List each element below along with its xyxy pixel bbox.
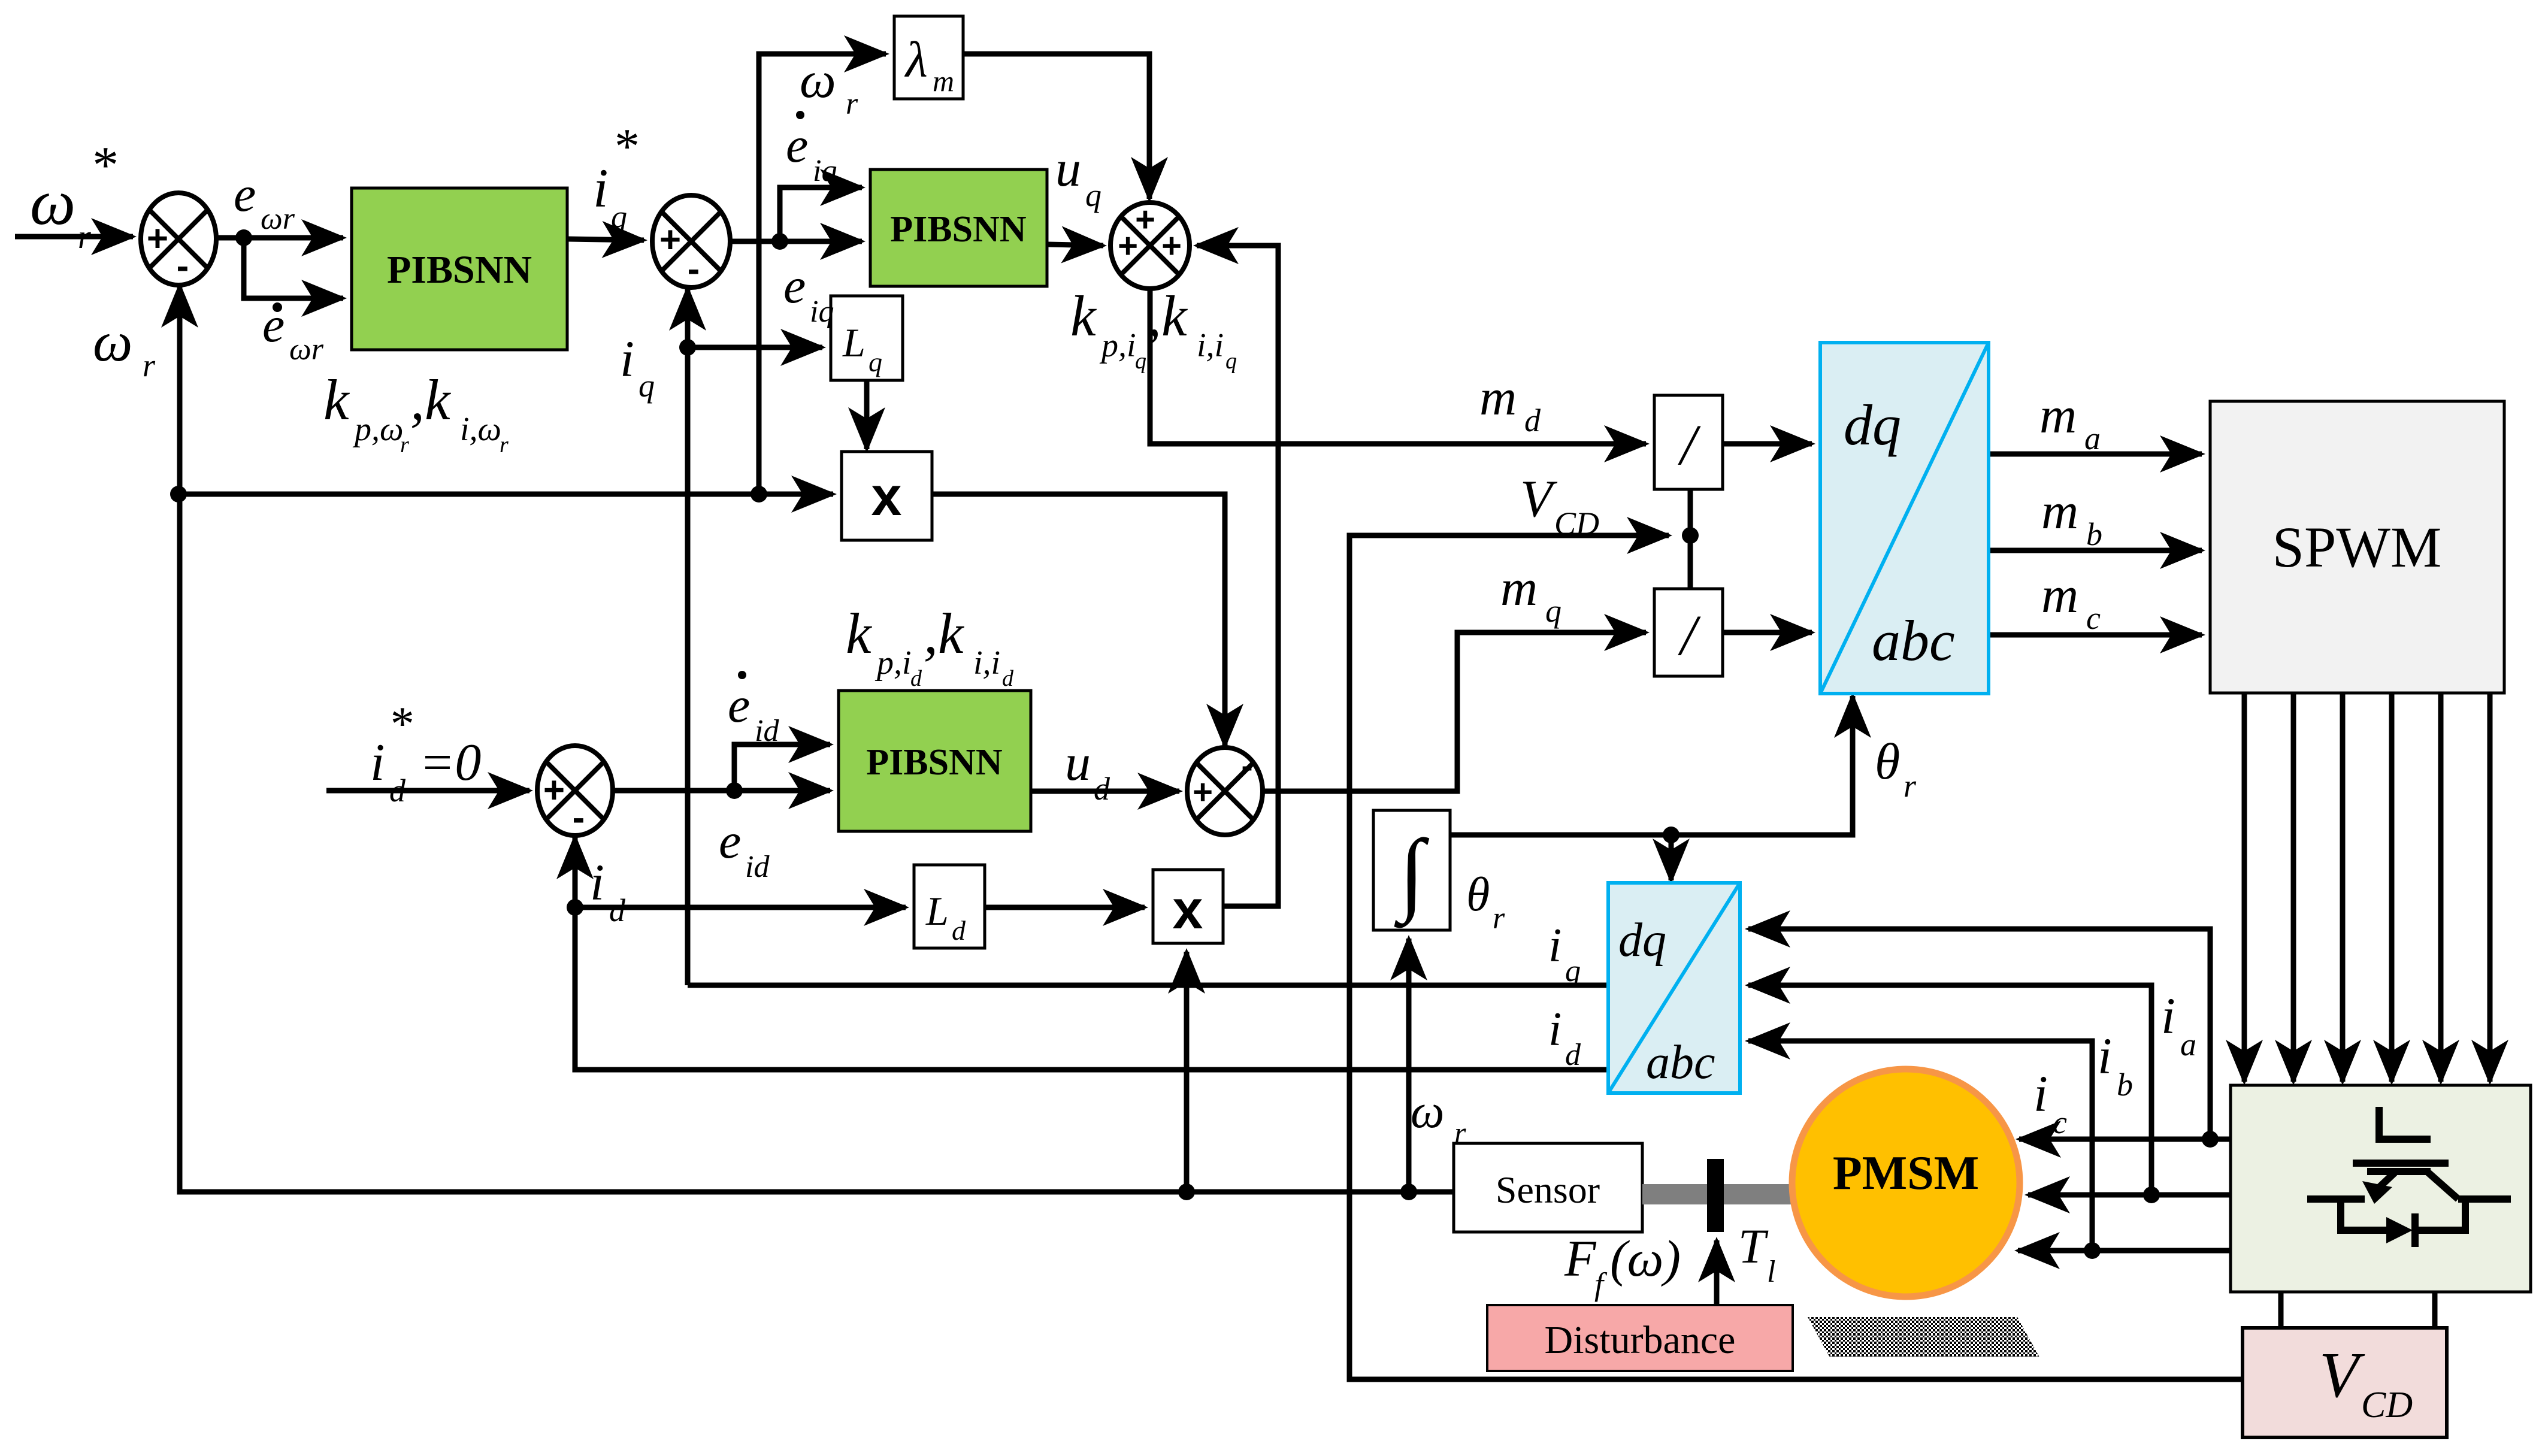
wire inverter phase a to PMSM — [2019, 1137, 2231, 1142]
wire sensor omega_r feedback to speed sum — [180, 286, 1454, 1192]
node i_q tap — [679, 339, 696, 356]
wire PIBSNN2 output u_q to q output sum — [1047, 244, 1103, 246]
block sensor — [1454, 1143, 1642, 1232]
wire theta_r down into dq2 — [1669, 835, 1674, 880]
block multiplier X2 — [1153, 870, 1223, 943]
wire q-current sum output to node e_iq — [730, 239, 780, 244]
block divider 1 — [1654, 395, 1723, 489]
wire i_c sense up and into dq2 — [1748, 1041, 2092, 1251]
wire SPWM gate line 5 — [2438, 693, 2444, 1082]
node theta_r branch — [1663, 827, 1679, 843]
svg-text:b: b — [2086, 516, 2102, 552]
wire e_iq branch up to PIBSNN2 upper input — [780, 187, 862, 241]
svg-text:l: l — [1767, 1255, 1775, 1289]
wire PIBSNN3 output u_d to d output sum — [1031, 789, 1179, 794]
svg-text:p,ω: p,ω — [352, 411, 404, 448]
svg-text:e: e — [786, 117, 808, 173]
wire SPWM gate line 6 — [2487, 693, 2493, 1082]
svg-text:L: L — [842, 320, 866, 365]
node i_c tap — [2084, 1242, 2101, 1259]
wire speed sum output to node e_wr — [216, 235, 244, 241]
label omega_r at sensor — [1411, 1085, 1466, 1149]
wire lambda_m output to q output sum top — [963, 54, 1149, 199]
wire i_q feedback vertical into q-current sum — [685, 289, 691, 985]
svg-text:=0: =0 — [419, 734, 481, 792]
svg-text:L: L — [925, 888, 949, 934]
wire e_wr dot branch down — [244, 238, 343, 298]
label e_id — [719, 813, 770, 884]
wire SPWM gate line 1 — [2242, 693, 2247, 1082]
machine PMSM — [1792, 1069, 2020, 1297]
label k_p,wr k_i,wr — [323, 368, 509, 458]
svg-text:λ: λ — [904, 32, 928, 88]
svg-text:∫: ∫ — [1394, 821, 1430, 928]
label i_d near sum3 — [590, 853, 626, 928]
svg-text:dq: dq — [1618, 914, 1666, 967]
summing junction S2 q-current error — [652, 195, 730, 290]
svg-text:V: V — [1520, 470, 1558, 528]
svg-text:*: * — [90, 137, 116, 195]
svg-text:+: + — [1161, 226, 1182, 265]
wire e_iq to PIBSNN2 lower input — [780, 239, 862, 244]
svg-text:q: q — [638, 368, 655, 404]
block divider 2 — [1654, 589, 1723, 676]
node omega_r tap X2 — [1178, 1183, 1195, 1200]
wire omega_r horizontal to multiplier X1 — [178, 492, 833, 497]
shaft between sensor and PMSM — [1642, 1184, 1794, 1204]
svg-text:i: i — [1548, 919, 1561, 972]
label T_l — [1738, 1219, 1775, 1289]
svg-text:id: id — [745, 850, 770, 884]
label m_q — [1500, 559, 1561, 629]
node omega_r to lambda tap — [751, 486, 767, 503]
svg-text:-: - — [573, 797, 585, 839]
svg-text:d: d — [952, 915, 966, 946]
wire divider2 output to dq1 — [1723, 630, 1812, 635]
wire omega_r tap up into multiplier X2 — [1184, 952, 1190, 1192]
label i_b — [2098, 1027, 2133, 1103]
svg-text:i: i — [620, 330, 634, 388]
label e_wr — [234, 167, 295, 236]
block dq/abc modulation transform — [1820, 343, 1989, 694]
wire divider chain vertical — [1688, 489, 1693, 589]
wire i_q output of dq2 to feedback vertical — [688, 983, 1608, 988]
wire e_id to PIBSNN3 lower input — [734, 788, 830, 794]
block disturbance — [1487, 1305, 1793, 1371]
wire omega_r* input to speed sum — [15, 234, 133, 240]
label i_q* — [593, 119, 637, 235]
svg-text:m: m — [1500, 559, 1538, 616]
wire omega_r up to lambda_m block — [759, 54, 886, 494]
block dq/abc current transform — [1608, 883, 1740, 1093]
svg-text:i,i: i,i — [973, 644, 1000, 682]
svg-text:*: * — [612, 119, 637, 174]
wire m_a dq1 to SPWM — [1989, 452, 2202, 457]
wire SPWM gate line 2 — [2291, 693, 2296, 1082]
svg-text:θ: θ — [1875, 732, 1900, 790]
wire inverter phase b to PMSM — [2028, 1192, 2231, 1198]
label theta_r at integrator — [1466, 868, 1505, 936]
svg-text:d: d — [1524, 402, 1541, 438]
svg-text:d: d — [609, 892, 626, 928]
svg-text:PIBSNN: PIBSNN — [890, 209, 1026, 250]
label i_a — [2161, 987, 2196, 1063]
svg-text:+: + — [1193, 773, 1213, 812]
wire m_b dq1 to SPWM — [1989, 548, 2202, 553]
block integrator — [1373, 810, 1450, 930]
svg-text:q: q — [1225, 349, 1237, 374]
label omega_r feedback left — [93, 311, 156, 383]
svg-text:ω: ω — [1411, 1085, 1444, 1138]
svg-text:+: + — [147, 218, 168, 259]
svg-text:q: q — [1085, 177, 1101, 213]
svg-text:iq: iq — [810, 295, 834, 329]
svg-text:i: i — [2161, 987, 2175, 1045]
svg-text:e: e — [783, 258, 806, 314]
label edot_iq — [786, 111, 837, 188]
svg-text:abc: abc — [1646, 1036, 1715, 1089]
block lambda_m — [894, 16, 963, 99]
svg-text:+: + — [1135, 200, 1155, 239]
label i_q below sum2 — [620, 330, 655, 404]
svg-text:e: e — [234, 167, 256, 222]
node e_wr — [235, 229, 252, 246]
svg-text:i: i — [593, 158, 609, 219]
wire q output sum down then right as m_d — [1150, 284, 1646, 444]
svg-text:u: u — [1065, 734, 1091, 791]
svg-text:CD: CD — [2361, 1385, 2413, 1425]
node omega_r tap integrator — [1400, 1183, 1417, 1200]
summing junction S3 d input sum — [537, 746, 613, 839]
label i_q dq2 output — [1548, 919, 1581, 988]
ground hatch under PMSM — [1808, 1317, 2039, 1357]
label e_iq — [783, 258, 834, 329]
svg-text:u: u — [1055, 140, 1081, 197]
svg-text:+: + — [543, 770, 565, 811]
svg-text:r: r — [1493, 901, 1505, 936]
label i_c — [2033, 1065, 2067, 1140]
svg-text:b: b — [2117, 1067, 2133, 1103]
label u_d — [1065, 734, 1110, 807]
wire V_CD feedback up from bottom — [1349, 535, 2243, 1379]
svg-text:abc: abc — [1872, 609, 1955, 673]
wire i_d* = 0 input — [326, 788, 529, 794]
svg-text:m: m — [2041, 566, 2078, 623]
svg-text:PMSM: PMSM — [1833, 1147, 1979, 1200]
label omega_r near lambda — [800, 51, 858, 121]
wire omega_r tap up into integrator — [1406, 939, 1412, 1192]
summing junction S4 q voltage sum — [1110, 200, 1190, 289]
wire SPWM gate line 4 — [2389, 693, 2395, 1082]
label m_b — [2041, 482, 2102, 552]
shaft coupling block — [1707, 1159, 1724, 1232]
block V_CD source — [2243, 1328, 2447, 1437]
block Lq — [831, 296, 903, 380]
svg-text:PIBSNN: PIBSNN — [387, 248, 532, 292]
svg-text:,k: ,k — [410, 368, 452, 432]
svg-text:i: i — [590, 853, 604, 911]
block PIBSNN3 d-current controller — [839, 691, 1031, 831]
wire divider1 output to dq1 — [1723, 441, 1812, 447]
wire i_b sense up and into dq2 — [1748, 985, 2151, 1195]
label F_f(omega) — [1564, 1230, 1681, 1302]
svg-text:+: + — [659, 219, 681, 261]
wire Ld output to multiplier X2 — [985, 905, 1145, 910]
label u_q — [1055, 140, 1101, 213]
label omega_r* — [30, 137, 116, 256]
label m_a — [2039, 386, 2101, 456]
wire PIBSNN1 output i_q* to q-current sum — [567, 239, 644, 240]
svg-text:SPWM: SPWM — [2272, 515, 2442, 579]
wire i_q tap to Lq block — [688, 345, 822, 350]
label m_c — [2041, 566, 2101, 636]
svg-text:p,i: p,i — [874, 644, 912, 682]
svg-text:CD: CD — [1554, 505, 1599, 541]
svg-text:ωr: ωr — [261, 202, 295, 236]
label k_p,id k_i,id — [846, 601, 1014, 691]
svg-text:r: r — [1454, 1116, 1466, 1149]
block PIBSNN1 speed controller — [352, 188, 567, 350]
node i_d tap to Ld — [567, 899, 583, 916]
svg-text:i: i — [370, 734, 385, 792]
node i_b tap — [2143, 1186, 2160, 1203]
svg-text:q: q — [611, 199, 627, 235]
svg-text:r: r — [400, 432, 409, 458]
svg-text:k: k — [323, 368, 350, 432]
label m_d — [1479, 368, 1541, 438]
svg-text:e: e — [719, 813, 741, 869]
wire i_a sense up and into dq2 — [1748, 929, 2210, 1139]
svg-text:-: - — [688, 249, 700, 290]
svg-text:iq: iq — [813, 154, 837, 188]
wire i_d tap to Ld block — [575, 905, 906, 910]
node V_CD junction — [1682, 527, 1699, 544]
svg-text:d: d — [1565, 1038, 1581, 1072]
svg-text:i: i — [2033, 1065, 2048, 1122]
svg-text:PIBSNN: PIBSNN — [866, 742, 1002, 783]
svg-text:ωr: ωr — [289, 332, 324, 367]
block PIBSNN2 q-current controller — [870, 169, 1047, 286]
svg-text:m: m — [2041, 482, 2078, 540]
svg-text:d: d — [389, 773, 406, 809]
svg-text:q: q — [1565, 954, 1581, 988]
label i_d* = 0 — [370, 698, 481, 809]
label edot_wr — [262, 297, 324, 367]
wire multiplier X1 output to d output sum top — [932, 494, 1225, 746]
svg-text:p,i: p,i — [1099, 327, 1136, 364]
svg-text:c: c — [2053, 1104, 2067, 1140]
svg-text:r: r — [846, 87, 858, 121]
svg-text:Sensor: Sensor — [1496, 1169, 1600, 1211]
svg-text:+: + — [1118, 226, 1138, 265]
svg-text:id: id — [755, 714, 779, 748]
svg-text:d: d — [1002, 666, 1014, 691]
svg-text:ω: ω — [800, 51, 836, 108]
wire e_id branch up to PIBSNN3 upper input — [734, 744, 830, 791]
svg-text:r: r — [500, 432, 509, 458]
block SPWM — [2210, 401, 2504, 693]
svg-text:(ω): (ω) — [1610, 1230, 1681, 1287]
label V_CD mid — [1520, 470, 1599, 541]
block Ld — [914, 865, 985, 948]
svg-text:dq: dq — [1844, 393, 1901, 457]
wire SPWM gate line 3 — [2340, 693, 2346, 1082]
svg-text:c: c — [2086, 600, 2101, 636]
svg-text:,k: ,k — [1147, 284, 1188, 348]
wire inverter to V_CD right stub — [2432, 1292, 2438, 1328]
wire inverter to V_CD left stub — [2278, 1292, 2284, 1328]
svg-text:e: e — [728, 677, 750, 733]
svg-text:V: V — [2319, 1340, 2365, 1411]
svg-text:i,ω: i,ω — [460, 411, 501, 448]
label k_p,iq k_i,iq — [1070, 284, 1237, 374]
svg-text:q: q — [868, 347, 882, 377]
summing junction S1 speed error — [141, 193, 216, 287]
svg-text:ω: ω — [30, 167, 75, 238]
svg-text:a: a — [2084, 420, 2101, 456]
svg-text:m: m — [2039, 386, 2077, 444]
svg-text:T: T — [1738, 1219, 1769, 1273]
svg-text:r: r — [143, 347, 156, 383]
svg-text:ω: ω — [93, 311, 132, 373]
block multiplier X1 — [842, 452, 932, 540]
svg-text:-: - — [177, 246, 189, 287]
svg-text:x: x — [1172, 879, 1203, 940]
wire e_wr to PIBSNN1 upper input — [244, 235, 343, 241]
svg-text:m: m — [1479, 368, 1517, 426]
svg-text:k: k — [1070, 284, 1097, 348]
svg-text:Disturbance: Disturbance — [1545, 1318, 1736, 1362]
svg-text:*: * — [388, 698, 412, 750]
wire inverter phase c to PMSM — [2018, 1248, 2231, 1254]
wire d input sum output to node e_id — [612, 788, 734, 794]
label theta_r at dq1 — [1875, 732, 1917, 804]
svg-text:x: x — [871, 466, 901, 527]
svg-text:F: F — [1564, 1230, 1597, 1287]
svg-text:θ: θ — [1466, 868, 1490, 921]
svg-text:i: i — [2098, 1027, 2112, 1085]
wire m_c dq1 to SPWM — [1989, 632, 2202, 638]
svg-text:i: i — [1548, 1003, 1561, 1056]
wire integrator output theta_r — [1450, 696, 1853, 835]
node e_id — [726, 782, 743, 799]
summing junction S5 d voltage sum — [1187, 746, 1263, 835]
wire Lq output down to multiplier X1 — [864, 380, 870, 449]
node omega_r branch on left vertical — [170, 486, 187, 503]
svg-text:a: a — [2180, 1027, 2196, 1063]
svg-text:,k: ,k — [924, 601, 965, 665]
svg-text:r: r — [78, 219, 91, 256]
svg-text:i,i: i,i — [1197, 327, 1224, 364]
wire T_l disturbance arrow — [1714, 1240, 1720, 1305]
block inverter — [2231, 1085, 2531, 1292]
node i_a tap — [2202, 1131, 2219, 1148]
svg-text:q: q — [1545, 593, 1561, 629]
svg-text:d: d — [910, 666, 922, 691]
wire i_d output of dq2 to d input sum — [575, 837, 1608, 1070]
svg-text:d: d — [1094, 771, 1110, 807]
svg-text:-: - — [1241, 746, 1252, 785]
label edot_id — [728, 671, 779, 748]
wire multiplier X2 output up to q output sum right — [1197, 246, 1278, 906]
transistor IGBT icon inside inverter — [2307, 1107, 2511, 1247]
svg-text:k: k — [846, 601, 873, 665]
wire d output sum right then up as m_q — [1262, 632, 1646, 791]
svg-text:m: m — [933, 64, 954, 98]
svg-text:q: q — [1135, 349, 1146, 374]
svg-text:r: r — [1904, 768, 1917, 804]
node e_iq — [771, 233, 788, 250]
label i_d dq2 output — [1548, 1003, 1581, 1072]
